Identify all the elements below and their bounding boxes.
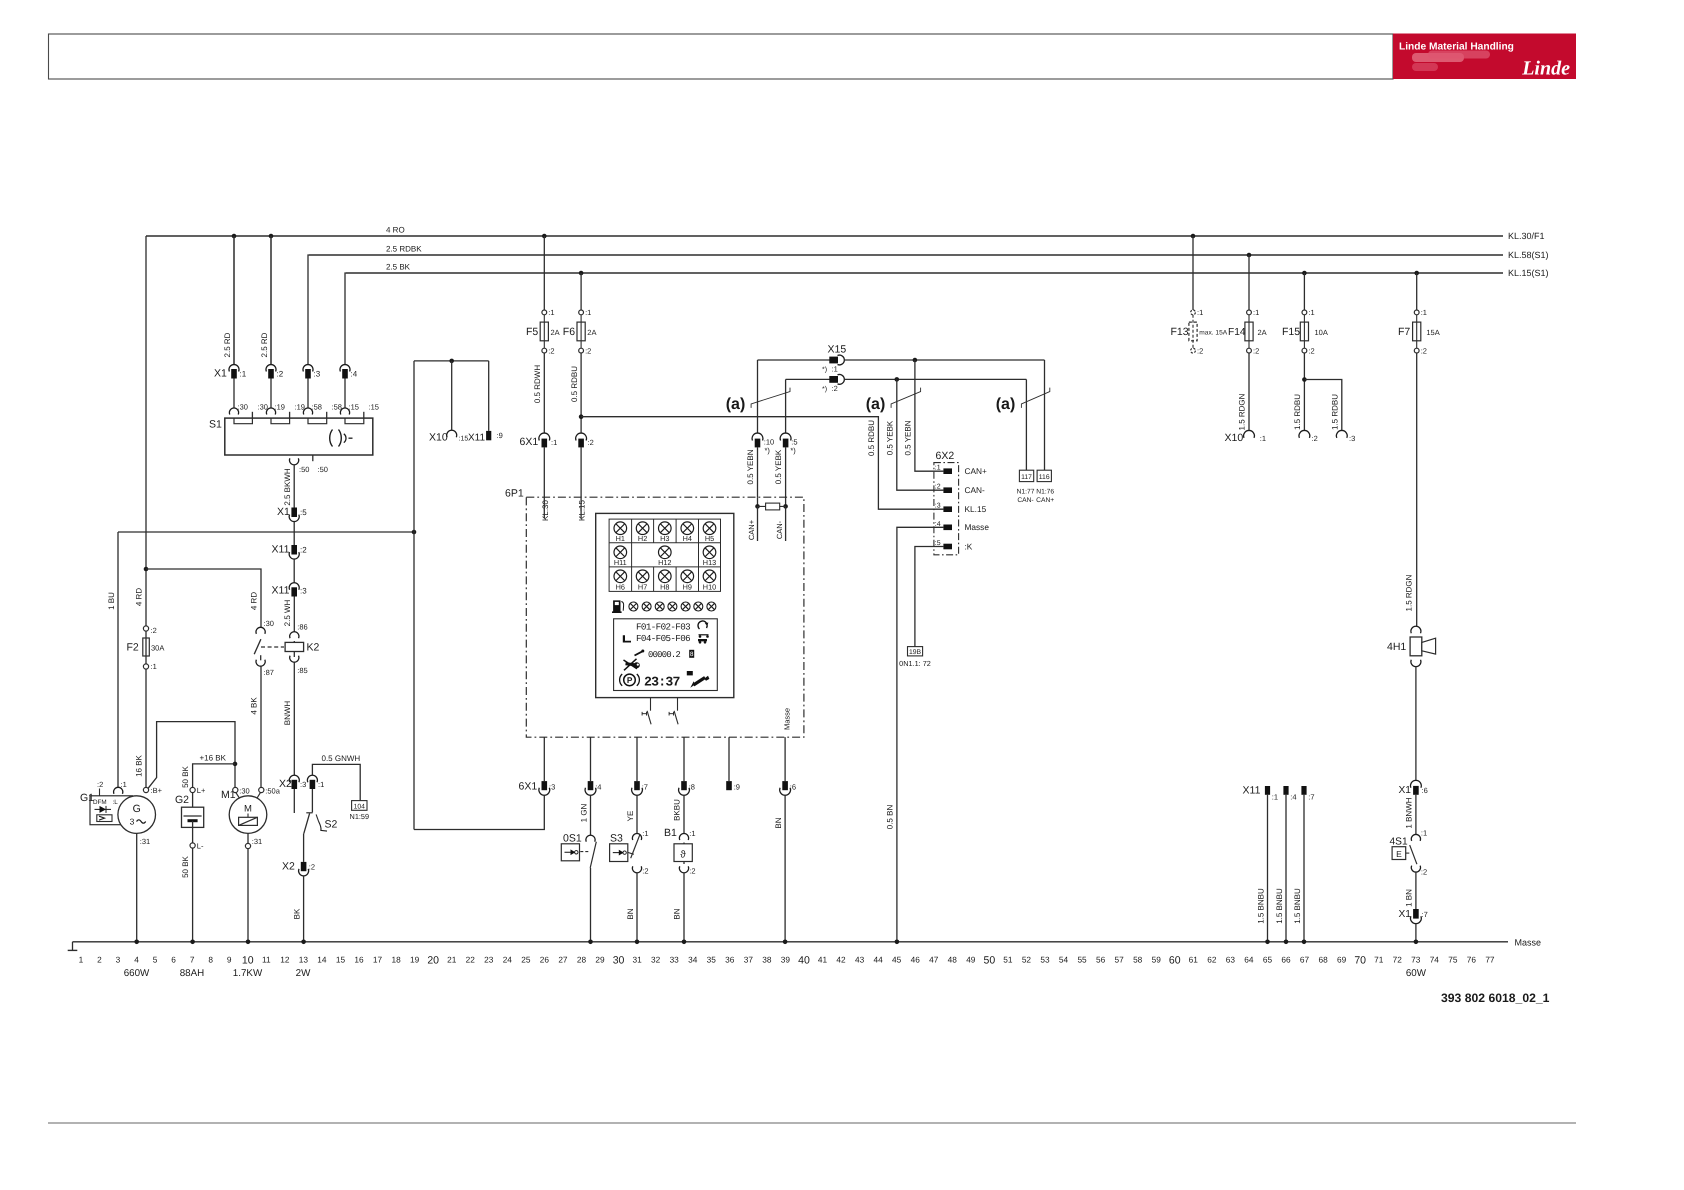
svg-text:H10: H10 (703, 582, 716, 591)
plug 104 / N1:59 (350, 801, 369, 821)
svg-text::3: :3 (300, 780, 306, 789)
wire 2.5 RDBK to X1:3 (308, 255, 309, 365)
svg-text:117: 117 (1021, 474, 1032, 481)
connector X10 pin :3 (1336, 430, 1355, 443)
svg-text::L: :L (113, 799, 119, 806)
svg-text:S2: S2 (325, 819, 338, 831)
svg-text:8: 8 (208, 955, 213, 965)
svg-text:F2: F2 (127, 642, 139, 654)
connector X1 pin :5 (277, 506, 307, 522)
display unit 6P1 enclosure (505, 488, 804, 738)
svg-text::6: :6 (1422, 786, 1428, 795)
connector 6X1 pin :5 (774, 433, 797, 497)
svg-text:4H1: 4H1 (1387, 641, 1406, 653)
svg-text::87: :87 (264, 668, 274, 677)
wire 16 BK G1:B+ to M1:30 (148, 722, 237, 789)
svg-text:47: 47 (929, 955, 939, 965)
svg-text:66: 66 (1281, 955, 1291, 965)
svg-text:CAN-: CAN- (965, 485, 986, 495)
svg-text:13: 13 (299, 955, 309, 965)
svg-text:42: 42 (836, 955, 846, 965)
svg-text:48: 48 (948, 955, 958, 965)
instrument cluster panel in 6P1 (596, 513, 734, 697)
wire BK X2:2 to Masse (292, 876, 303, 942)
svg-text:Masse: Masse (965, 522, 990, 532)
svg-text:14: 14 (317, 955, 327, 965)
relay contact K2 :30/:87 (254, 619, 284, 677)
LCD display area of 6P1 (614, 619, 718, 691)
wire 0.5 RDBU F6 to 6X1:2 (570, 353, 584, 433)
plug 19B 0N1.1:72 (899, 647, 931, 668)
svg-text:1.5 RDBU: 1.5 RDBU (1331, 394, 1340, 430)
svg-text:63: 63 (1226, 955, 1236, 965)
svg-text:KL.58(S1): KL.58(S1) (1508, 250, 1549, 260)
svg-text:X10: X10 (429, 432, 448, 444)
svg-text:X1: X1 (277, 506, 290, 518)
svg-text:52: 52 (1022, 955, 1032, 965)
svg-text:32: 32 (651, 955, 661, 965)
svg-text:34: 34 (688, 955, 698, 965)
svg-text:ϑ: ϑ (680, 850, 686, 861)
svg-text:*): *) (822, 385, 827, 393)
wire 1.5 RDGN F7 to 4H1 (1405, 353, 1417, 626)
svg-text::1: :1 (1197, 308, 1203, 317)
svg-text::2: :2 (1197, 347, 1203, 356)
svg-text:4 RD: 4 RD (135, 588, 144, 606)
svg-text::1: :1 (121, 780, 127, 789)
svg-text:0.5 GNWH: 0.5 GNWH (322, 754, 361, 763)
connector 6X1 pin :8 (679, 737, 695, 795)
svg-text:H2: H2 (638, 534, 647, 543)
svg-text::3: :3 (300, 587, 307, 596)
svg-text:73: 73 (1411, 955, 1421, 965)
wire 0.5 RDBU KL.15 to 6X2:3 (581, 417, 943, 510)
svg-text:4 BK: 4 BK (250, 697, 259, 715)
svg-text::2: :2 (585, 347, 591, 356)
fuse F14 2A (1228, 253, 1267, 356)
svg-text:57: 57 (1115, 955, 1125, 965)
svg-text:15A: 15A (1426, 328, 1439, 337)
svg-text:X11: X11 (1243, 785, 1261, 797)
svg-text::85: :85 (297, 666, 307, 675)
wire 50 BK G2:L- to Masse (181, 848, 193, 942)
battery G2 88AH (175, 786, 206, 851)
wire 4H1 to X1:6 (1415, 666, 1417, 781)
wire 1 BNWH X1:6 to 4S1 (1404, 795, 1416, 835)
connector X11 pin :7 (right) (1293, 786, 1315, 942)
svg-text:50 BK: 50 BK (181, 855, 190, 877)
svg-text:N1:77: N1:77 (1017, 489, 1035, 496)
fuel gauge lamp row (612, 601, 716, 612)
fuse F2 30A (127, 588, 165, 671)
svg-text:1.5 BNBU: 1.5 BNBU (1275, 888, 1284, 924)
svg-text:22: 22 (466, 955, 476, 965)
svg-text:1.5 RDGN: 1.5 RDGN (1238, 393, 1247, 430)
svg-text:4S1: 4S1 (1390, 836, 1408, 847)
svg-text:77: 77 (1485, 955, 1495, 965)
relay coil K2 (285, 623, 319, 676)
svg-text:5: 5 (153, 955, 158, 965)
svg-text:33: 33 (670, 955, 680, 965)
svg-text:CAN-: CAN- (1017, 497, 1033, 504)
connector X15 pin :2 (786, 374, 1027, 393)
svg-text:CAN-: CAN- (775, 520, 784, 539)
svg-text::30: :30 (238, 403, 248, 412)
svg-text::K: :K (965, 541, 973, 551)
svg-text:67: 67 (1300, 955, 1310, 965)
svg-text:N1:59: N1:59 (350, 812, 369, 821)
svg-text:Masse: Masse (1515, 937, 1542, 947)
svg-text:23: 23 (484, 955, 494, 965)
svg-text:6X2: 6X2 (936, 450, 955, 462)
connector X11 pin :4 (right) (1275, 786, 1297, 942)
svg-text::7: :7 (1422, 910, 1428, 919)
svg-text:B1: B1 (664, 827, 677, 839)
svg-text:29: 29 (595, 955, 605, 965)
svg-text::1: :1 (1421, 308, 1427, 317)
svg-text::30: :30 (239, 787, 249, 796)
starter motor M1 1.7KW (221, 787, 281, 834)
svg-text:50 BK: 50 BK (181, 765, 190, 787)
wire 0.5 BN 6X2:4 Masse (886, 527, 944, 942)
svg-text:8: 8 (690, 651, 694, 658)
svg-text::3: :3 (314, 370, 321, 379)
svg-text::B+: :B+ (151, 786, 163, 795)
svg-text:*): *) (765, 446, 771, 455)
svg-text:S1: S1 (209, 419, 222, 431)
mode buttons of 6P1 (642, 698, 678, 725)
wire bus KL.58(S1) (2.5 RDBK) (309, 245, 1549, 261)
svg-text:00000.2: 00000.2 (648, 650, 680, 660)
svg-text:0.5 YEBK: 0.5 YEBK (774, 449, 783, 484)
wire 2.5 RD to X1:1 (223, 236, 234, 365)
svg-text::2: :2 (1312, 434, 1318, 443)
connector X1 pin :6 (1399, 780, 1428, 796)
svg-text:23:37: 23:37 (644, 675, 680, 690)
svg-text::1: :1 (1421, 829, 1427, 838)
fuse F6 2A (563, 271, 597, 356)
svg-text:max. 15A: max. 15A (1199, 330, 1227, 337)
svg-text:X2: X2 (279, 778, 292, 790)
svg-text:M: M (244, 804, 252, 815)
svg-text:70: 70 (1354, 955, 1366, 967)
wire 16 BK F2 to G1:B+ (134, 669, 146, 787)
svg-text:19B: 19B (909, 649, 922, 656)
svg-text:46: 46 (911, 955, 921, 965)
wire X1:5 to X11:2 (293, 522, 295, 546)
svg-text:BK: BK (292, 908, 301, 919)
wire distribution net to X10/X11/6X1 (118, 359, 489, 830)
svg-text:1: 1 (79, 955, 84, 965)
svg-text:(a): (a) (726, 396, 746, 413)
svg-text:F13: F13 (1171, 326, 1189, 338)
svg-text:KL:30: KL:30 (541, 499, 550, 520)
title block frame (49, 34, 1394, 79)
svg-text:0N1.1: 72: 0N1.1: 72 (899, 659, 931, 668)
indicator lamp grid H1-H13 (609, 519, 720, 591)
wire 0.5 YEBN CAN+ to 6X2:1 (904, 358, 944, 472)
ground rail Masse (73, 937, 1542, 947)
wire 2.5 BKWH S1:50 to X1:5 (283, 465, 294, 508)
ground rail position numbers (79, 955, 1495, 967)
svg-text::19: :19 (275, 403, 285, 412)
wire M1:31 to Masse (245, 833, 262, 941)
temperature sensor B1 (664, 795, 696, 942)
svg-text::2: :2 (300, 546, 307, 555)
svg-text:35: 35 (707, 955, 717, 965)
svg-text::2: :2 (309, 863, 315, 872)
generator G1 with regulator (80, 780, 156, 833)
svg-text:1 BN: 1 BN (1404, 889, 1413, 907)
svg-text:88AH: 88AH (180, 968, 205, 979)
wire 0.5 GNWH X2:1 to plug 104 (312, 754, 360, 801)
connector X11 pin :2 (272, 544, 308, 560)
svg-text::1: :1 (1272, 793, 1278, 802)
wire CAN+ X15:1 to N1:76 (1044, 360, 1046, 470)
svg-text:19: 19 (410, 955, 420, 965)
svg-text:(a): (a) (866, 396, 886, 413)
svg-text::9: :9 (497, 431, 503, 440)
svg-text::4: :4 (351, 370, 358, 379)
svg-text:40: 40 (798, 955, 810, 967)
svg-text:Linde: Linde (1521, 58, 1570, 80)
connector X10 pin :2 (1299, 430, 1318, 443)
wire 1 BU to G1:1 (107, 532, 118, 787)
svg-text:0.5 YEBK: 0.5 YEBK (885, 420, 894, 455)
CAN termination resistor in 6P1 (747, 497, 788, 541)
svg-text:660W: 660W (124, 968, 150, 979)
note (a) marker 3 (996, 388, 1050, 413)
svg-text::1: :1 (1308, 308, 1314, 317)
connector 6X1 pin :7 (632, 737, 648, 795)
svg-text:4: 4 (134, 955, 139, 965)
svg-text:N1:76: N1:76 (1036, 489, 1054, 496)
svg-text::3: :3 (935, 503, 941, 510)
connector X11 pin :9 (468, 431, 503, 444)
svg-text:X1: X1 (214, 368, 227, 380)
svg-text:31: 31 (632, 955, 642, 965)
svg-text:G2: G2 (175, 794, 189, 806)
svg-text:43: 43 (855, 955, 865, 965)
svg-text:BN: BN (626, 908, 635, 919)
pressure switch 0S1 (561, 795, 596, 942)
connector X1 pin :3 (303, 365, 321, 408)
svg-text:17: 17 (373, 955, 383, 965)
svg-text::50: :50 (299, 465, 309, 474)
svg-text::3: :3 (1349, 434, 1355, 443)
svg-text:64: 64 (1244, 955, 1254, 965)
svg-text:K2: K2 (307, 642, 320, 654)
wire 2.5 BK to X1:4 (345, 273, 346, 365)
svg-text:DFM: DFM (93, 799, 107, 806)
svg-text:H13: H13 (703, 558, 716, 567)
connector X2 pin :1 (307, 775, 324, 789)
svg-text:X11: X11 (468, 433, 485, 444)
wire 0.5 YEBK X15:2 to 6X1:5 (785, 379, 787, 433)
svg-text:0.5 YEBN: 0.5 YEBN (746, 449, 755, 484)
svg-text::2: :2 (151, 626, 157, 635)
svg-text:16: 16 (354, 955, 364, 965)
svg-text:36: 36 (725, 955, 735, 965)
fuse F15 10A (1282, 271, 1328, 356)
svg-text::8: :8 (689, 783, 695, 792)
wire G1:31 to Masse (137, 833, 151, 941)
connector 6X1 pin :9 (726, 737, 740, 791)
svg-text:9: 9 (227, 955, 232, 965)
svg-text:X1: X1 (1399, 785, 1412, 796)
svg-text:0S1: 0S1 (563, 833, 582, 845)
ground symbol (68, 942, 78, 951)
svg-text:2: 2 (97, 955, 102, 965)
svg-text:CAN+: CAN+ (1036, 497, 1054, 504)
svg-text:10: 10 (242, 955, 254, 967)
svg-text::2: :2 (277, 370, 284, 379)
svg-text:F15: F15 (1282, 326, 1300, 338)
svg-text:104: 104 (354, 803, 366, 810)
emergency switch 4S1 (1390, 829, 1428, 877)
svg-text:H3: H3 (660, 534, 669, 543)
load labels under rail (124, 968, 1427, 979)
svg-text::50: :50 (318, 465, 328, 474)
wire 4 RO feeder to F2 (146, 234, 273, 627)
svg-text::15: :15 (369, 403, 379, 412)
plug 117 N1:77 CAN- (1017, 470, 1035, 504)
svg-text:25: 25 (521, 955, 531, 965)
wire 6X1:3 to distribution net (414, 795, 544, 829)
svg-text:1.5 BNBU: 1.5 BNBU (1293, 888, 1302, 924)
wire 1.5 RDBU F15 to X10:2 and X10:3 (1293, 353, 1342, 431)
connector 6X1 pin :6 (780, 737, 796, 795)
connector X15 pin :1 (758, 344, 1045, 374)
wire 0.5 YEBK CAN- to 6X2:2 (885, 377, 943, 490)
fuse F13 max.15A (optional) (1171, 234, 1228, 356)
svg-text:11: 11 (262, 955, 271, 965)
svg-text:55: 55 (1077, 955, 1087, 965)
svg-text:6P1: 6P1 (505, 488, 524, 500)
svg-text::2: :2 (1308, 347, 1314, 356)
svg-text::1: :1 (689, 829, 695, 838)
wire 4 BK K2:87 to M1:50a (250, 666, 261, 787)
wire bus KL.15(S1) (2.5 BK) (346, 263, 1549, 279)
svg-text::2: :2 (1421, 868, 1427, 877)
svg-text:Masse: Masse (782, 708, 791, 730)
svg-text:41: 41 (818, 955, 828, 965)
svg-text:62: 62 (1207, 955, 1217, 965)
svg-text:39: 39 (781, 955, 791, 965)
svg-text:CAN+: CAN+ (747, 519, 756, 540)
svg-text:F6: F6 (563, 326, 575, 338)
wire 1.5 RDGN F14 to X10:1 (1238, 353, 1249, 431)
svg-text:H5: H5 (705, 534, 714, 543)
svg-text::1: :1 (1253, 308, 1259, 317)
connector X1 pin :2 (266, 365, 284, 408)
svg-text:53: 53 (1040, 955, 1050, 965)
svg-text:72: 72 (1393, 955, 1403, 965)
svg-text::1: :1 (318, 780, 324, 789)
svg-text::2: :2 (548, 347, 554, 356)
svg-text::1: :1 (548, 308, 554, 317)
svg-text:61: 61 (1189, 955, 1199, 965)
connector X10 pin :15 (429, 430, 468, 443)
svg-text:54: 54 (1059, 955, 1069, 965)
svg-text::1: :1 (551, 438, 557, 447)
svg-text::58: :58 (312, 403, 322, 412)
connector 6X1 pin :1 (520, 433, 558, 497)
svg-text::4: :4 (595, 783, 601, 792)
svg-text:H11: H11 (614, 558, 627, 567)
svg-text:0.5 RDBU: 0.5 RDBU (570, 366, 579, 402)
svg-text:74: 74 (1430, 955, 1440, 965)
svg-text:0.5 YEBN: 0.5 YEBN (904, 420, 913, 455)
svg-text:60W: 60W (1406, 968, 1427, 979)
connector X1 pin :4 (340, 365, 358, 408)
svg-text::7: :7 (1308, 793, 1314, 802)
svg-text:2A: 2A (1258, 328, 1267, 337)
svg-text::1: :1 (585, 308, 591, 317)
svg-text:50: 50 (984, 955, 996, 967)
svg-text:2.5 WH: 2.5 WH (283, 599, 292, 626)
Linde logo panel (1393, 34, 1576, 80)
svg-text:2W: 2W (296, 968, 311, 979)
svg-text:BKBU: BKBU (673, 799, 682, 821)
svg-text:X11: X11 (272, 585, 290, 597)
svg-text::2: :2 (689, 867, 695, 876)
Masse label inside 6P1 (782, 708, 791, 730)
svg-text:30: 30 (613, 955, 625, 967)
switch S2 seat switch (304, 789, 338, 862)
drawing number (1441, 991, 1550, 1005)
svg-text:68: 68 (1318, 955, 1328, 965)
svg-text::1: :1 (832, 365, 838, 374)
svg-text:1.5 RDGN: 1.5 RDGN (1405, 574, 1414, 611)
svg-text:28: 28 (577, 955, 587, 965)
svg-text:51: 51 (1003, 955, 1013, 965)
svg-text:E: E (1396, 849, 1402, 859)
svg-text:49: 49 (966, 955, 976, 965)
svg-text:3: 3 (130, 817, 135, 827)
svg-text:45: 45 (892, 955, 902, 965)
svg-text::4: :4 (1290, 793, 1296, 802)
svg-text:L-: L- (197, 842, 204, 851)
wire 2.5 RD to X1:2 (260, 236, 271, 365)
svg-text:F7: F7 (1398, 326, 1410, 338)
svg-text:69: 69 (1337, 955, 1347, 965)
svg-text::2: :2 (832, 384, 838, 393)
svg-text:26: 26 (540, 955, 550, 965)
svg-text:S3: S3 (610, 833, 623, 845)
svg-text:2.5 BK: 2.5 BK (386, 263, 411, 272)
svg-text:20: 20 (427, 955, 439, 967)
svg-text::31: :31 (252, 837, 262, 846)
svg-text:H4: H4 (683, 534, 692, 543)
wire BN 6X1:6 to Masse (774, 795, 785, 942)
svg-text:F14: F14 (1228, 327, 1246, 338)
svg-text:BN: BN (673, 908, 682, 919)
connector X11 pin :1 (right) (1243, 785, 1279, 942)
connector X2 pin :2 (282, 861, 315, 876)
svg-text:1.7KW: 1.7KW (233, 968, 263, 979)
svg-text:4 RO: 4 RO (386, 226, 405, 235)
svg-text:24: 24 (503, 955, 513, 965)
fuse F5 2A (526, 234, 560, 356)
svg-text:H8: H8 (660, 582, 669, 591)
connector 6X1 pin :4 (585, 737, 601, 795)
svg-text:H7: H7 (638, 582, 647, 591)
svg-text:H9: H9 (683, 582, 692, 591)
svg-text::5: :5 (300, 508, 307, 517)
svg-text::2: :2 (1421, 347, 1427, 356)
wire 6X2:5 :K to plug 19B (915, 547, 944, 647)
